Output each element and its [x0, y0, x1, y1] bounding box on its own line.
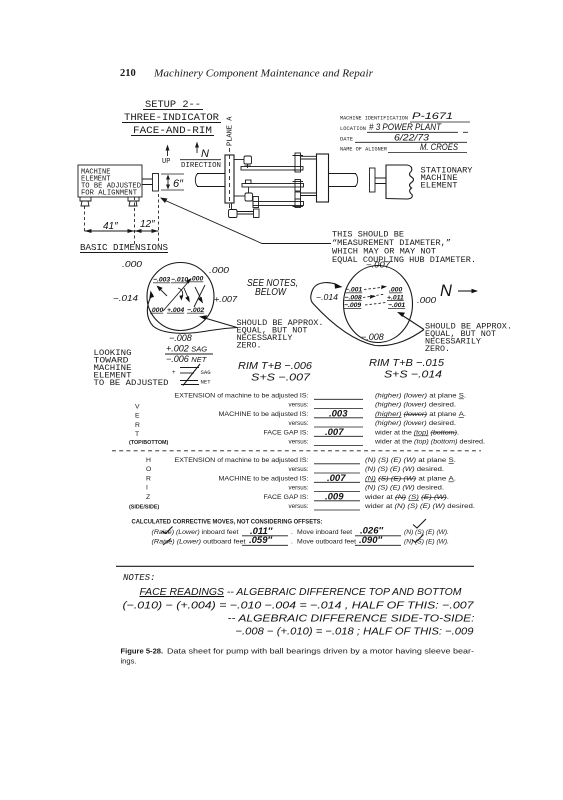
right foot [128, 197, 139, 206]
bottom bar [253, 202, 304, 206]
vert row 1 extension [175, 393, 467, 400]
svg-text:+.007: +.007 [214, 295, 238, 304]
svg-text:Move outboard feet: Move outboard feet [297, 539, 356, 546]
svg-text:ZERO.: ZERO. [425, 346, 450, 354]
svg-text:O: O [146, 466, 151, 473]
svg-text:.: . [291, 529, 293, 536]
svg-text:RIM T+B −.015: RIM T+B −.015 [369, 357, 444, 369]
svg-text:-- ALGEBRAIC DIFFERENCE SIDE-T: -- ALGEBRAIC DIFFERENCE SIDE-TO-SIDE: [228, 613, 475, 625]
svg-text:(Raise) (Lower) outboard feet: (Raise) (Lower) outboard feet [152, 539, 246, 546]
svg-text:−.008: −.008 [345, 294, 362, 301]
bottom-left clamp [253, 197, 259, 208]
svg-text:SAG: SAG [201, 369, 212, 376]
svg-text:−.002: −.002 [187, 307, 204, 314]
slash over (Raise) outboard [163, 539, 171, 546]
svg-text:−.003: −.003 [153, 277, 170, 284]
VERT section label letters [135, 404, 140, 439]
svg-text:−.010: −.010 [171, 277, 188, 284]
svg-text:EQUAL COUPLING HUB DIAMETER.: EQUAL COUPLING HUB DIAMETER. [332, 256, 476, 265]
svg-text:EXTENSION of machine to be adj: EXTENSION of machine to be adjusted IS: [175, 457, 309, 464]
horizontal rule above notes [116, 565, 474, 567]
middle rod to right plate [301, 193, 317, 196]
svg-text:versus:: versus: [289, 485, 309, 492]
svg-text:BELOW: BELOW [255, 287, 288, 298]
dimension line 41 and 12 [85, 229, 159, 233]
svg-text:ELEMENT: ELEMENT [421, 182, 458, 191]
svg-text:ings.: ings. [121, 657, 137, 666]
svg-text:NOTES:: NOTES: [123, 573, 155, 583]
svg-text:BASIC DIMENSIONS: BASIC DIMENSIONS [80, 242, 168, 253]
svg-text:+.004: +.004 [167, 307, 184, 314]
stationary machine label [421, 167, 473, 191]
left circle arrows [157, 278, 206, 311]
HORIZ section label letters [146, 457, 151, 501]
svg-text:H: H [146, 457, 151, 464]
svg-text:−.009: −.009 [344, 302, 361, 309]
svg-text:FACE READINGS -- ALGEBRAIC DIF: FACE READINGS -- ALGEBRAIC DIFFERENCE TO… [140, 586, 462, 598]
svg-text:FACE GAP IS:: FACE GAP IS: [264, 494, 309, 501]
shaft right [329, 174, 357, 187]
svg-text:versus:: versus: [289, 402, 309, 409]
svg-text:.000: .000 [190, 276, 203, 283]
svg-text:−.001: −.001 [388, 302, 405, 309]
svg-text:S+S −.007: S+S −.007 [251, 372, 311, 384]
svg-text:.000: .000 [209, 266, 230, 275]
svg-text:“MEASUREMENT DIAMETER,”: “MEASUREMENT DIAMETER,” [332, 238, 451, 248]
stationary machine body [386, 165, 414, 199]
svg-text:R: R [135, 422, 140, 429]
SETUP title block [122, 99, 221, 137]
see notes below [247, 278, 298, 298]
svg-text:MACHINE IDENTIFICATION: MACHINE IDENTIFICATION [340, 115, 408, 122]
top rod to right plate [301, 156, 317, 159]
svg-text:(SIDE/SIDE): (SIDE/SIDE) [129, 505, 159, 511]
left circle inner top row [153, 276, 203, 284]
svg-text:(higher) (lower) at plane A.: (higher) (lower) at plane A. [375, 411, 466, 418]
shaft left [197, 174, 225, 187]
vert row 3 machine [219, 409, 467, 420]
right dial readings circle [344, 266, 413, 343]
svg-text:Figure 5-28.: Figure 5-28. [121, 647, 164, 656]
svg-text:41″: 41″ [103, 221, 118, 232]
left plate (plane A hub) [225, 155, 234, 203]
sag arithmetic [165, 333, 213, 364]
stationary machine coupling [370, 168, 387, 192]
svg-text:DIRECTION: DIRECTION [181, 162, 221, 170]
svg-text:.000: .000 [389, 287, 402, 294]
svg-text:versus:: versus: [289, 420, 309, 427]
middle clamp right [295, 180, 301, 192]
pump drawing [195, 148, 357, 218]
checkmark over (S) outboard [412, 535, 424, 543]
svg-text:.090″: .090″ [359, 535, 382, 546]
svg-text:210: 210 [120, 68, 136, 79]
svg-text:.000: .000 [150, 307, 163, 314]
svg-text:.007: .007 [325, 427, 344, 438]
svg-text:LOCATION: LOCATION [340, 125, 366, 132]
horiz row 5 face gap [264, 492, 450, 503]
svg-text:−.014: −.014 [316, 293, 339, 302]
top bar [241, 167, 303, 171]
left circle loop tail [147, 294, 237, 333]
svg-text:(higher) (lower) at plane S.: (higher) (lower) at plane S. [375, 393, 466, 400]
dial indicator top [244, 156, 252, 164]
svg-text:MACHINE to be adjusted IS:: MACHINE to be adjusted IS: [219, 476, 309, 483]
left foot [80, 197, 91, 206]
svg-text:+: + [172, 370, 176, 376]
svg-text:NET: NET [201, 379, 212, 386]
UP arrow [162, 145, 170, 167]
svg-text:(N) (S) (E) (W) desired.: (N) (S) (E) (W) desired. [365, 466, 444, 473]
svg-text:.000: .000 [417, 296, 437, 305]
svg-text:6″: 6″ [173, 178, 184, 190]
leader into left circle [199, 315, 237, 327]
svg-text:.059″: .059″ [249, 535, 272, 546]
checkmark over (S) inboard [413, 519, 426, 528]
moves row inboard [152, 526, 450, 538]
svg-text:EXTENSION of machine to be adj: EXTENSION of machine to be adjusted IS: [175, 393, 309, 400]
svg-text:I: I [146, 485, 148, 492]
svg-text:ZERO.: ZERO. [237, 342, 262, 350]
sag symbol [172, 364, 211, 386]
svg-text:(higher) (lower) desired.: (higher) (lower) desired. [375, 402, 456, 409]
left dial readings circle [147, 263, 214, 331]
svg-text:versus:: versus: [289, 466, 309, 473]
right plate [317, 154, 329, 202]
horiz row 6 versus [289, 503, 476, 510]
should-be note (left) [237, 320, 324, 350]
svg-text:−.008 − (+.010) = −.018 ; HALF: −.008 − (+.010) = −.018 ; HALF OF THIS: … [236, 626, 474, 638]
machine element box [78, 165, 142, 198]
svg-text:wider at the (top) (bottom).: wider at the (top) (bottom). [374, 430, 459, 437]
small clamp above middle bar [246, 180, 252, 184]
dashed extension lines [85, 194, 159, 244]
svg-text:N: N [201, 148, 209, 160]
svg-text:PLANE A: PLANE A [227, 116, 235, 146]
svg-text:(TOP/BOTTOM): (TOP/BOTTOM) [129, 440, 169, 446]
svg-text:UP: UP [162, 158, 170, 166]
svg-text:MACHINE to be adjusted IS:: MACHINE to be adjusted IS: [219, 411, 309, 418]
svg-text:R: R [146, 476, 151, 483]
top clamp [295, 153, 301, 172]
should-be note (right) [425, 324, 512, 355]
svg-text:−.001: −.001 [345, 287, 362, 294]
figure caption [121, 647, 475, 666]
svg-text:N: N [440, 282, 452, 300]
svg-text:M. CROES: M. CROES [420, 142, 459, 153]
svg-text:(N) (S) (E) (W).: (N) (S) (E) (W). [404, 539, 449, 546]
svg-text:wider at the (top) (bottom) de: wider at the (top) (bottom) desired. [374, 439, 485, 446]
svg-text:(higher) (lower) desired.: (higher) (lower) desired. [375, 420, 456, 427]
svg-text:−.007: −.007 [366, 261, 391, 270]
svg-text:RIM T+B −.006: RIM T+B −.006 [238, 360, 312, 372]
leader into right circle [397, 312, 424, 330]
svg-text:wider at (N) (S) (E) (W).: wider at (N) (S) (E) (W). [364, 494, 450, 501]
svg-text:TO BE ADJUSTED: TO BE ADJUSTED [94, 378, 169, 388]
6 inch dimension [161, 174, 184, 190]
svg-text:−.008: −.008 [361, 332, 384, 342]
horiz row 3 machine [219, 473, 457, 484]
dial indicator bottom [231, 203, 233, 210]
svg-text:−.008: −.008 [169, 333, 192, 343]
svg-text:S+S −.014: S+S −.014 [384, 369, 442, 381]
svg-text:FACE GAP IS:: FACE GAP IS: [264, 430, 309, 437]
machine identification form [340, 111, 470, 153]
svg-text:−.014: −.014 [113, 294, 139, 303]
svg-text:.: . [291, 539, 293, 546]
svg-text:12″: 12″ [140, 219, 155, 230]
svg-text:.003: .003 [329, 409, 348, 420]
vert row 5 face gap [264, 427, 460, 438]
vert row 6 versus [289, 439, 486, 446]
svg-text:P-1671: P-1671 [412, 111, 453, 122]
horiz row 2 versus [289, 466, 445, 473]
horiz row 1 extension [175, 457, 457, 464]
right circle dashed arrows [363, 285, 387, 305]
dashed centerline [229, 148, 231, 210]
rim readings (left) [238, 360, 312, 384]
svg-text:NAME OF ALIGNER: NAME OF ALIGNER [340, 145, 388, 152]
N direction arrow [180, 142, 221, 171]
svg-text:Data sheet for pump with ball: Data sheet for pump with ball bearings d… [167, 647, 475, 656]
svg-text:(N) (S) (E) (W) at plane S.: (N) (S) (E) (W) at plane S. [365, 457, 456, 464]
svg-text:versus:: versus: [289, 439, 309, 446]
svg-text:.007: .007 [327, 473, 346, 484]
svg-text:wider at (N) (S) (E) (W) desir: wider at (N) (S) (E) (W) desired. [364, 503, 476, 510]
svg-text:+.011: +.011 [387, 294, 404, 301]
svg-text:(N) (S) (E) (W) desired.: (N) (S) (E) (W) desired. [365, 485, 444, 492]
svg-text:−.006 NET: −.006 NET [166, 354, 208, 364]
looking toward label [94, 348, 169, 388]
vert row 4 versus [289, 420, 457, 427]
svg-text:.000: .000 [122, 260, 143, 269]
shaft stub [142, 179, 153, 185]
svg-text:T: T [135, 431, 139, 438]
svg-text:CALCULATED CORRECTIVE MOVES, N: CALCULATED CORRECTIVE MOVES, NOT CONSIDE… [132, 519, 323, 526]
right circle inner right column [387, 287, 405, 310]
vert row 2 versus [289, 402, 457, 409]
svg-text:FOR ALIGNMENT: FOR ALIGNMENT [81, 190, 137, 198]
svg-text:(N) (S) (E) (W) at plane A.: (N) (S) (E) (W) at plane A. [365, 476, 456, 483]
svg-text:Z: Z [146, 494, 150, 501]
coupling hub [153, 174, 159, 192]
svg-text:(−.010) − (+.004) = −.010 −.00: (−.010) − (+.004) = −.010 −.004 = −.014 … [123, 600, 475, 612]
BASIC DIMENSIONS [80, 242, 168, 253]
indicator bracket top [234, 159, 244, 161]
svg-text:versus:: versus: [289, 503, 309, 510]
right circle inner left column [344, 287, 362, 310]
rim readings (right) [369, 357, 444, 381]
svg-text:# 3 POWER PLANT: # 3 POWER PLANT [369, 122, 442, 132]
svg-text:DATE: DATE [340, 135, 354, 142]
svg-text:E: E [135, 413, 140, 420]
dial indicator middle [248, 188, 250, 194]
right circle lasso loop and sweep tail [311, 283, 424, 346]
checkmark over (Raise) inboard [162, 527, 173, 534]
svg-text:+.002 SAG: +.002 SAG [166, 344, 207, 354]
svg-text:Machinery Component Maintenanc: Machinery Component Maintenance and Repa… [153, 68, 374, 80]
svg-text:(N) (S) (E) (W).: (N) (S) (E) (W). [404, 529, 449, 536]
moves row outboard [152, 535, 450, 546]
north arrow [440, 282, 478, 300]
svg-text:.009: .009 [325, 492, 344, 503]
measurement diameter note [332, 231, 476, 266]
dashed separator [112, 450, 481, 452]
svg-text:V: V [135, 404, 140, 411]
middle bar [242, 184, 304, 188]
bottom clamp right [295, 199, 301, 208]
svg-text:Move inboard feet: Move inboard feet [297, 529, 352, 536]
left circle inner bottom row [150, 307, 204, 314]
leader arrow to measurement note [160, 198, 331, 244]
horiz row 4 versus [289, 485, 445, 492]
